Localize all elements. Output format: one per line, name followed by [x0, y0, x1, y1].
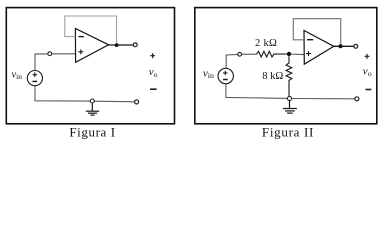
ground (Figura I) [86, 103, 99, 115]
svg-text:2 kΩ: 2 kΩ [255, 38, 277, 49]
caption Figura I [69, 125, 115, 140]
caption Figura II [262, 125, 314, 140]
op-amp U1 (Figura I) [75, 29, 108, 63]
wire feedback loop (Figura II) [293, 19, 340, 47]
label vo (Figura II) [363, 65, 372, 78]
op-amp U2 (Figura II) [304, 31, 334, 65]
node input terminal (Figura II) [238, 52, 242, 56]
resistor R2 8 kOhm (Figura II) [286, 56, 292, 96]
label plus polarity (Figura II) [365, 54, 370, 59]
label vin (Figura I) [12, 69, 23, 81]
label minus polarity (Figura I) [150, 88, 157, 90]
svg-text:Figura II: Figura II [262, 125, 314, 140]
node ground junction (Figura I) [90, 99, 94, 103]
node output terminal minus (Figura I) [135, 100, 139, 104]
voltage source Vin (Figura I) [27, 71, 42, 86]
svg-text:vo: vo [149, 66, 158, 79]
node ground junction (Figura II) [287, 96, 291, 100]
node output terminal minus (Figura II) [355, 97, 359, 101]
junction node R1-R2-input (Figura II) [287, 52, 291, 56]
label vin (Figura II) [203, 67, 214, 80]
wire op-amp output (Figura II) [334, 45, 354, 47]
svg-text:vin: vin [12, 69, 23, 81]
node output terminal plus (Figura I) [133, 43, 137, 47]
svg-text:Figura I: Figura I [69, 125, 115, 140]
wire R1 to non-inverting input (Figura II) [289, 53, 304, 56]
label vo (Figura I) [149, 66, 158, 79]
label 2 kOhm value [255, 38, 277, 49]
resistor R1 2 kOhm (Figura II) [257, 51, 290, 57]
node output terminal plus (Figura II) [354, 44, 358, 48]
wire bottom rail (Figura II) [226, 84, 355, 99]
voltage source Vin (Figura II) [218, 68, 233, 83]
wire Vin to resistor R1 (Figura II) [226, 54, 256, 68]
wire feedback loop (Figura I) [65, 16, 117, 45]
junction output node (Figura I) [115, 43, 119, 47]
label minus polarity (Figura II) [366, 89, 372, 91]
label 8 kOhm value [262, 71, 283, 82]
ground (Figura II) [283, 101, 297, 113]
svg-text:vin: vin [203, 67, 214, 80]
junction output node (Figura II) [339, 44, 343, 48]
label plus polarity (Figura I) [150, 53, 155, 58]
wire bottom rail (Figura I) [35, 86, 135, 102]
wire op-amp output (Figura I) [109, 44, 134, 46]
svg-text:vo: vo [363, 65, 372, 78]
wire Vin to non-inverting input (Figura I) [35, 54, 75, 71]
node input terminal (Figura I) [48, 52, 52, 56]
svg-text:8 kΩ: 8 kΩ [262, 71, 283, 82]
